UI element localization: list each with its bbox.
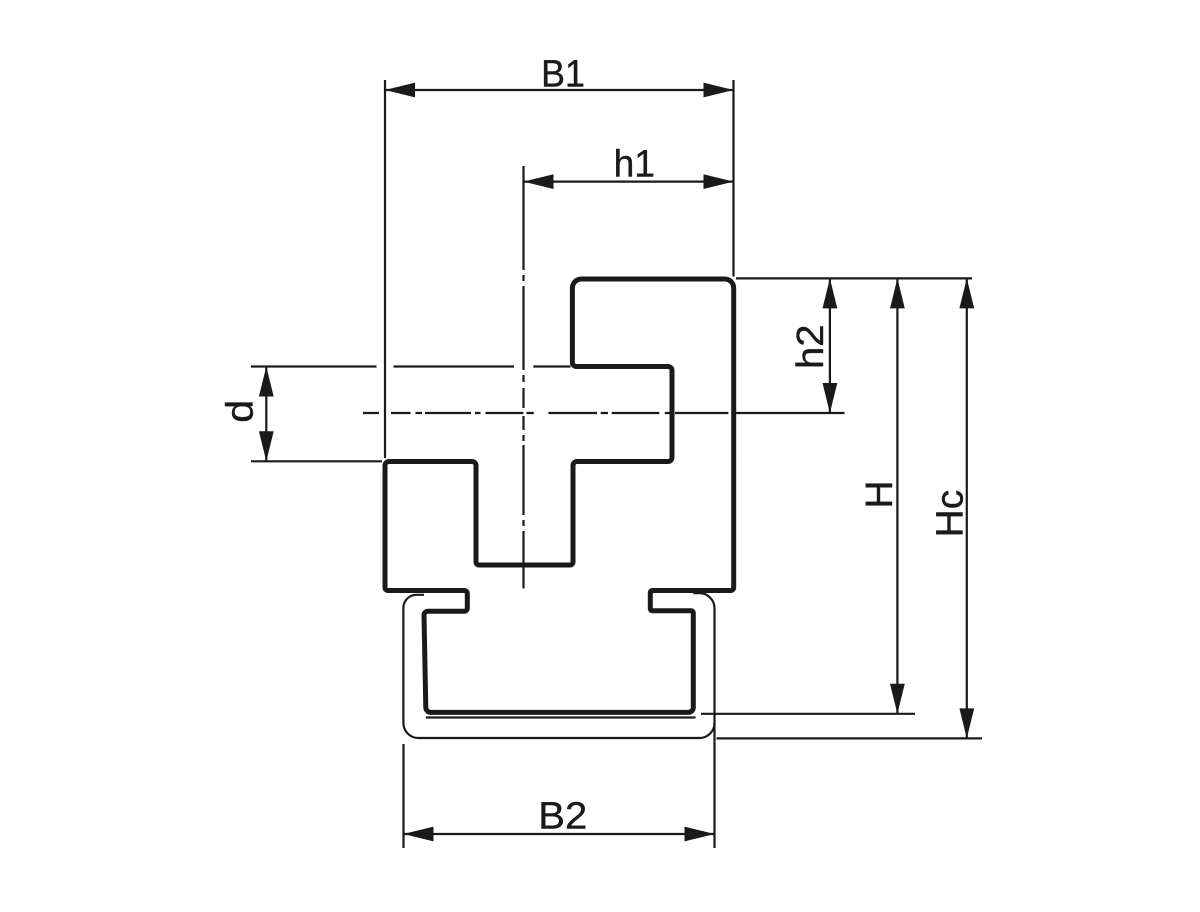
svg-text:d: d [220,400,262,423]
dimension d [220,367,571,462]
dimension B2 [404,723,715,848]
dimension H [701,278,915,713]
svg-text:H: H [859,480,901,508]
steel C-channel inner bottom line [426,716,696,718]
svg-text:h2: h2 [790,324,832,369]
dimension B1 [385,53,734,458]
svg-text:Hc: Hc [929,490,971,538]
plastic guide profile outline [385,279,734,712]
dimension h1 [524,143,734,189]
h2 bottom extension line (solid over centerline) [735,412,845,414]
svg-text:B1: B1 [541,53,585,95]
steel C-channel outer contour [403,593,714,738]
top extension line (right side) [736,277,972,279]
dimension h2 [790,278,838,413]
svg-text:h1: h1 [614,143,655,185]
svg-text:B2: B2 [538,796,587,838]
vertical centerline (dash-dot) [522,166,524,589]
dimension Hc [717,278,983,738]
horizontal centerline (dash-dot) [363,412,728,414]
